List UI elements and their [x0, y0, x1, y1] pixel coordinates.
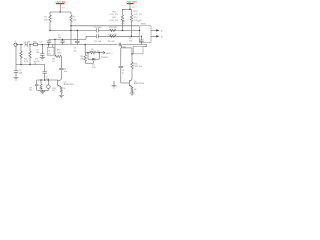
- label C7 value: [46, 77, 50, 81]
- microphone element MK2 (circle): [47, 80, 51, 90]
- wire J1 down: [15, 46, 17, 71]
- svg-text:1.8K_5%: 1.8K_5%: [133, 66, 142, 68]
- svg-text:104: 104: [19, 73, 23, 75]
- label net row2b: [58, 35, 62, 40]
- label C4 value: [73, 48, 77, 53]
- label Q2: [63, 82, 74, 86]
- resistor R2: [70, 12, 72, 45]
- capacitor C13 (row2b to bus): [60, 39, 64, 44]
- svg-text:C1 104: C1 104: [24, 41, 32, 43]
- wire top-right rail: [122, 8, 131, 10]
- label R5 (near node wire): [34, 62, 37, 66]
- node junction bus x85.2: [84, 44, 86, 46]
- transistor Q1: [129, 80, 132, 88]
- svg-text:M: M: [48, 51, 50, 53]
- svg-text:4.7K_1%: 4.7K_1%: [110, 14, 119, 16]
- capacitor C12 (row2 to bus at J2): [139, 36, 144, 44]
- capacitor C11 (series in row2): [96, 34, 98, 38]
- transistor Q2: [58, 80, 62, 88]
- label C8 value: [122, 70, 126, 75]
- wire arrow B: [151, 35, 160, 37]
- svg-text:HDR4: HDR4: [141, 23, 147, 25]
- capacitor C7 (node to base wire): [42, 65, 47, 81]
- label R16 value: [110, 12, 119, 17]
- resistor R3 (bus to node wire): [20, 45, 22, 65]
- ground (under C2): [14, 78, 19, 81]
- wire node row y64.5: [16, 64, 45, 66]
- node junction row1 pullup: [122, 30, 124, 32]
- label R17 value: [110, 11, 143, 22]
- node junction loop left: [87, 52, 89, 54]
- svg-text:MIC: MIC: [57, 50, 61, 52]
- node junction bus x21: [20, 44, 22, 46]
- node junction R7 top: [40, 79, 42, 81]
- resistor R4 (bus to node wire): [29, 45, 31, 65]
- svg-text:CD0603: CD0603: [100, 57, 108, 59]
- capacitor C2 (to ground): [14, 71, 19, 78]
- ground (under C3): [40, 58, 45, 61]
- capacitor C3 (bus to ground): [40, 45, 44, 58]
- svg-text:1K: 1K: [52, 61, 55, 63]
- svg-text:R2: R2: [73, 16, 77, 18]
- label R9 value: [80, 56, 84, 61]
- label R14 value: [133, 63, 142, 68]
- node junction C13 top: [62, 39, 64, 41]
- resistor R10 (Q2 emitter): [60, 87, 62, 95]
- node junction top-center: [59, 11, 61, 13]
- label C6 value: [64, 68, 67, 72]
- node junction row2 pullup: [131, 36, 133, 38]
- svg-text:R1: R1: [44, 16, 48, 18]
- capacitor C8 (feed to Q1 base): [119, 48, 124, 83]
- capacitor C4 polarized (row1 to bus): [74, 30, 79, 44]
- wire top-center rail: [50, 11, 71, 13]
- svg-text:C3: C3: [40, 41, 44, 43]
- label R10 (left of Q2): [52, 88, 66, 92]
- svg-text:NC: NC: [29, 89, 32, 91]
- wire sensor row y52.7: [85, 52, 89, 54]
- wire row0 net SHIELD: [71, 25, 140, 27]
- ferrite bead FB1 (series box in bus): [33, 43, 37, 46]
- resistor R17: [130, 9, 132, 36]
- svg-text:4.7K_1%: 4.7K_1%: [110, 20, 119, 22]
- svg-text:10u: 10u: [73, 50, 77, 52]
- svg-text:MMBT3904: MMBT3904: [63, 84, 74, 86]
- svg-text:3V3: 3V3: [132, 7, 136, 9]
- ground (base network): [40, 90, 45, 93]
- svg-text:10K: 10K: [73, 20, 77, 22]
- label node: [92, 64, 96, 68]
- wire main bus GND rail: [16, 44, 147, 46]
- svg-text:1K: 1K: [134, 89, 137, 91]
- node junction bus x42.3: [42, 44, 44, 46]
- node junction MK2 top: [48, 79, 50, 81]
- svg-text:1: 1: [15, 41, 17, 43]
- resistor R11 (series in row1): [110, 29, 116, 31]
- svg-text:R13 0R: R13 0R: [108, 41, 115, 43]
- label MK1: [48, 51, 51, 56]
- wire row2b down to R8: [54, 39, 56, 56]
- connector J2 box: [140, 26, 152, 43]
- label R2 value: [73, 16, 77, 21]
- label C9 value: [29, 87, 32, 91]
- label FB1 value: [33, 41, 38, 43]
- label Q1: [134, 81, 145, 91]
- wire Q1 feed top: [121, 45, 132, 48]
- svg-text:10u: 10u: [64, 71, 67, 73]
- svg-text:104: 104: [36, 52, 40, 54]
- svg-text:A: A: [161, 30, 163, 33]
- resistor R12 (series in row2): [110, 35, 116, 37]
- resistor R15 (Q1 emitter): [131, 87, 133, 93]
- capacitor C14 (row2b to bus): [47, 39, 51, 44]
- node junction bus MK1 pin: [48, 44, 50, 46]
- connector J1 pin circle: [14, 43, 18, 46]
- label R1 value: [44, 16, 48, 21]
- capacitor C9 (base network): [35, 80, 39, 90]
- diode D1 (parallel loop): [88, 53, 99, 61]
- power +3V3 P1 (top center): [55, 2, 66, 12]
- node junction top-right: [129, 9, 131, 11]
- wire row2b left: [49, 38, 86, 40]
- resistor R14 (collector chain): [131, 48, 133, 80]
- node junction row1 at J2: [139, 30, 141, 32]
- resistor R24 (series in sensor row): [90, 52, 99, 54]
- svg-text:3V3: 3V3: [61, 7, 65, 9]
- node junction row1 x71: [70, 30, 72, 32]
- svg-text:C10 104: C10 104: [94, 27, 103, 29]
- net flag sensor out: [103, 51, 105, 54]
- svg-text:104: 104: [129, 41, 133, 43]
- resistor R8 (horizontal): [55, 55, 62, 57]
- node junction C12 top: [141, 36, 143, 38]
- capacitor C10 (series in row1): [96, 28, 98, 32]
- label MK1 part: [57, 50, 62, 55]
- wire Q2 base y80: [37, 79, 58, 81]
- svg-text:1K: 1K: [52, 90, 55, 92]
- svg-text:C11 104: C11 104: [94, 41, 103, 43]
- svg-text:104: 104: [92, 67, 96, 69]
- wire row2 net SDA: [86, 36, 140, 39]
- buzzer LS1 box: [132, 47, 143, 55]
- svg-text:EN_1: EN_1: [122, 23, 128, 25]
- microphone MK1 box: [47, 45, 54, 56]
- ground (under Q2 emitter): [59, 95, 64, 97]
- svg-text:1u: 1u: [122, 73, 125, 75]
- node junction y64.5 x30: [29, 64, 31, 66]
- ground (under Q1 emitter): [130, 93, 135, 95]
- svg-text:104: 104: [58, 37, 62, 39]
- svg-text:104: 104: [46, 79, 50, 81]
- label C2 value: [19, 70, 23, 75]
- label net between pullups: [122, 21, 128, 25]
- label C12 value: [129, 38, 134, 43]
- svg-text:4.7K_1%: 4.7K_1%: [134, 14, 143, 16]
- node junction loop right: [98, 52, 100, 54]
- svg-text:9765: 9765: [57, 52, 62, 54]
- wire diode node down: [93, 61, 95, 64]
- label R4 value: [35, 59, 40, 63]
- resistor R16: [121, 9, 123, 30]
- capacitor C6 (series in Q2 collector): [59, 57, 63, 80]
- svg-text:B: B: [161, 37, 163, 39]
- wire base network bottom rail: [37, 89, 49, 91]
- node junction LS1 pin: [131, 53, 133, 55]
- resistor R9 (sensor row to node): [84, 53, 94, 64]
- svg-text:R12 47K: R12 47K: [109, 34, 118, 36]
- wire row1 net SCL: [50, 29, 140, 31]
- wire bus corner right: [143, 45, 147, 47]
- label R8 value: [52, 59, 56, 64]
- svg-text:10K: 10K: [80, 59, 84, 61]
- wire Q1 base: [121, 82, 130, 84]
- node junction base/C7: [44, 79, 46, 81]
- wire sensor row right: [98, 52, 105, 54]
- power +3V3 P2 (top right): [126, 2, 138, 10]
- node junction y64.5 x21: [20, 64, 22, 66]
- capacitor C15 (series in bus): [118, 43, 123, 47]
- node junction row2b x55: [54, 39, 56, 41]
- ground (base network): [112, 81, 117, 88]
- svg-text:1K: 1K: [63, 88, 66, 90]
- label C3 value: [36, 49, 40, 54]
- node junction C4 top: [77, 30, 79, 32]
- wire bus drop to sensor row: [84, 45, 86, 53]
- node junction bus x30: [29, 44, 31, 46]
- svg-text:SEN_1: SEN_1: [106, 53, 113, 55]
- resistor R1: [49, 12, 51, 30]
- node junction row1 left: [49, 30, 51, 32]
- svg-text:MMBT3904: MMBT3904: [134, 83, 145, 85]
- capacitor C1 (series in bus): [23, 43, 29, 47]
- label R3 value: [24, 59, 29, 63]
- svg-text:2.2K: 2.2K: [24, 61, 29, 63]
- svg-text:R11 47K: R11 47K: [109, 27, 118, 29]
- resistor R7 (base network): [40, 80, 42, 90]
- svg-text:10K: 10K: [44, 20, 48, 22]
- node junction row0: [70, 25, 72, 27]
- wire arrow A: [151, 29, 160, 31]
